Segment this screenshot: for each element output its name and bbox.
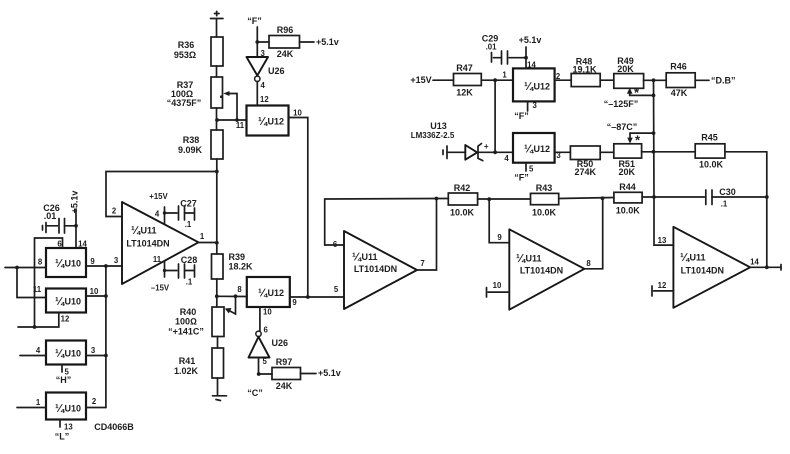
wire op-amp c output riser [584,198,602,268]
svg-text:7: 7 [420,259,424,268]
svg-text:¼: ¼ [524,81,534,93]
wire diode to U12 d pin 4 [478,151,513,153]
svg-text:U26: U26 [268,66,285,76]
svg-text:20K: 20K [618,167,635,177]
svg-text:5: 5 [334,285,339,294]
svg-text:+5.1v: +5.1v [519,35,542,45]
pin 6 feedback wire [325,199,437,246]
resistor R44 [614,182,642,216]
svg-text:LT1014DN: LT1014DN [681,266,724,276]
svg-text:10.0K: 10.0K [699,160,724,170]
node: R43/R44 to op-amp c output [601,196,605,200]
wire R37-R38 through tap node [216,108,218,130]
resistor R96 [269,25,300,59]
output wire (op-amp d) [750,265,781,271]
op-amp U11 b (pins 6/5/7) [333,231,425,309]
potentiometer R37 [167,77,237,119]
wire C30 to output riser [712,196,767,198]
svg-text:U12: U12 [268,288,285,298]
svg-text:.1: .1 [721,200,728,209]
capacitor C29 [482,34,526,65]
wire R47 to U12 c pin 1 [481,79,513,81]
analog switch U10 d (pins 1/2, 13) net L [17,393,106,442]
svg-text:¼: ¼ [680,252,690,264]
svg-text:4: 4 [36,346,41,355]
+5.1v rail label (rotated) [70,191,80,248]
svg-text:14: 14 [527,61,536,70]
wire R50-R51 [600,151,614,153]
pin 10 stub to U26 b [260,307,272,335]
svg-text:U11: U11 [690,253,706,263]
svg-text:R39: R39 [229,252,246,262]
node C26/+5.1v rail [74,224,78,228]
op-amp U11 d (pins 13/12/14) [658,227,760,308]
svg-text:10: 10 [90,287,99,296]
svg-text:R46: R46 [670,62,687,72]
bus: U10 outputs to op-amp pin 3 [104,264,108,407]
svg-text:R97: R97 [276,357,293,367]
node: R47/diode riser [493,78,497,82]
potentiometer R40 [168,296,235,336]
capacitor C28 [165,255,198,287]
node: R49/bus [652,78,656,82]
inverter U26 b (pointing up) [249,331,289,366]
svg-text:8: 8 [586,259,591,268]
wire op-amp b output up to main row [417,199,437,271]
svg-text:3: 3 [261,49,266,58]
pin 3 stub and F label [514,101,537,121]
svg-text:R45: R45 [701,133,718,143]
svg-text:¼: ¼ [516,253,526,265]
pin 14 stub to +5.1v [519,35,542,70]
analog switch U10 c (pins 4/3, 5) net H [20,341,106,386]
capacitor C26 [43,203,77,233]
pin 2 output wire [555,72,572,81]
node: F / R96 [255,40,259,44]
wire R96 to +5.1v [300,41,315,43]
svg-text:1.02K: 1.02K [174,366,199,376]
svg-text:R42: R42 [454,183,471,193]
svg-text:+5.1v: +5.1v [318,368,341,378]
wire op-amp output to node [199,242,218,244]
svg-text:10: 10 [263,308,272,317]
svg-text:10: 10 [293,109,302,118]
svg-text:R47: R47 [456,63,473,73]
analog switch U12 d (pins 4/3, 5) [513,133,555,163]
svg-text:9.09K: 9.09K [178,145,203,155]
resistor R41 [174,348,224,378]
wire node to R42 [436,198,448,200]
svg-text:LT1014DN: LT1014DN [126,239,169,249]
svg-text:–15V: –15V [151,284,170,293]
svg-text:12: 12 [658,281,667,290]
svg-text:4: 4 [155,210,160,219]
svg-text:LM336Z-2.5: LM336Z-2.5 [411,131,455,140]
node C [247,372,263,398]
svg-text:CD4066B: CD4066B [94,422,134,432]
node: diode/riser [493,150,497,154]
wire R49 to R46 [644,79,667,81]
wire node C to R97 [259,373,272,375]
svg-text:“–87C”: “–87C” [607,122,638,132]
svg-text:U11: U11 [141,226,157,236]
analog switch U12 c (pins 1/2, 14, 3) [513,68,555,101]
svg-text:2: 2 [92,397,97,406]
svg-text:¼: ¼ [131,225,141,237]
node: op-amp b output / R42 [435,197,439,201]
wire power to R36 [216,19,218,38]
svg-text:“F”: “F” [247,16,262,26]
svg-text:5: 5 [529,165,534,174]
wire node down to diode node [494,80,496,152]
pin 3 output wire (U12 d) [555,151,571,160]
svg-text:“F”: “F” [514,111,529,121]
svg-text:+15V: +15V [410,75,431,85]
pin 9 wire to bus [86,257,122,266]
wire R45 to output riser [725,151,767,153]
wire R46 to D.B output [695,76,735,86]
wire +15V to R47 [433,79,454,81]
svg-text:10.0K: 10.0K [616,206,641,216]
svg-text:+: + [484,142,489,151]
svg-text:8: 8 [237,285,242,294]
svg-text:“+141C”: “+141C” [168,327,204,337]
svg-text:R44: R44 [619,182,636,192]
svg-text:.01: .01 [486,43,498,52]
svg-text:953Ω: 953Ω [174,50,196,60]
wire R44 to C30 [642,196,704,198]
inverter U26 (top) [247,49,285,90]
wire R97 to +5.1v [301,368,341,378]
svg-text:1: 1 [36,398,41,407]
svg-text:10.0K: 10.0K [532,208,557,218]
svg-text:U10: U10 [65,297,82,307]
wire node to R96 [257,41,269,43]
wire R51 to R45 [642,151,696,153]
pin 12 wire [18,313,70,329]
node: R51 wiper/bus [652,131,656,135]
node: U12 b input / R40 [215,285,247,298]
svg-text:¼: ¼ [524,144,534,156]
node: follower output [215,241,219,245]
ground (below R41) [213,378,227,401]
node: R37/R38 tap to U12 pin 11 [215,118,246,130]
resistor R50 [570,146,600,177]
svg-text:47K: 47K [671,88,688,98]
svg-text:10: 10 [493,281,502,290]
pin 13 wire from bus [654,197,673,245]
capacitor C30 [706,187,736,209]
resistor R43 [531,183,559,218]
svg-text:“C”: “C” [247,388,263,398]
svg-text:R38: R38 [183,135,200,145]
resistor R39 [212,252,254,279]
svg-text:19.1K: 19.1K [572,65,597,75]
svg-text:9: 9 [90,257,95,266]
svg-text:U12: U12 [268,117,285,127]
node: R42/R43 to pin 9 [487,197,491,201]
svg-text:+15V: +15V [149,192,168,201]
svg-text:U12: U12 [534,82,551,92]
svg-text:11: 11 [33,285,42,294]
svg-text:¼: ¼ [352,252,362,264]
svg-text:3: 3 [533,101,538,110]
wire U26 b to node C [258,358,260,375]
svg-text:11: 11 [236,121,245,130]
wire R36-R37 [216,66,218,77]
resistor R97 [272,357,301,391]
svg-text:9: 9 [497,233,502,242]
svg-text:.01: .01 [44,211,57,221]
svg-text:R41: R41 [179,356,196,366]
pin 5 stub and F label [514,163,534,183]
svg-text:4: 4 [504,154,509,163]
svg-text:13: 13 [64,423,73,432]
potentiometer R49 [614,56,654,100]
svg-text:R36: R36 [178,40,195,50]
svg-text:4: 4 [261,81,266,90]
feedback riser R45/C30 to output [766,152,768,267]
svg-text:1: 1 [502,71,507,80]
analog switch U10 a (pins 8/9, 6, 14) [46,240,87,278]
svg-text:LT1014DN: LT1014DN [354,264,397,274]
svg-text:U10: U10 [65,349,82,359]
svg-text:13: 13 [658,236,667,245]
svg-text:+5.1v: +5.1v [70,191,80,214]
svg-text:.1: .1 [186,278,193,287]
resistor R38 [178,130,223,159]
svg-text:C27: C27 [180,199,197,209]
analog switch U12 b (pins 8/9, 10) [247,277,290,307]
svg-text:11: 11 [153,255,162,264]
resistor R42 [448,183,477,218]
wire node down to op-amp c pin 9 [489,199,509,243]
svg-text:5: 5 [263,357,268,366]
svg-text:14: 14 [78,240,87,249]
pin 10 ground tick (op-amp c) [487,288,510,298]
svg-text:U26: U26 [272,338,289,348]
resistor R48 [571,57,600,87]
svg-text:R96: R96 [277,25,294,35]
pin 4 +15V stub [149,192,168,224]
node: R51/bus [652,150,656,154]
zener U13 LM336Z-2.5 [411,121,489,161]
pin 11 -15V stub [151,255,170,293]
op-amp U11 c (pins 9/10/8) [493,229,592,309]
wire R40-R41 [217,337,219,349]
svg-text:10.0K: 10.0K [450,208,475,218]
svg-text:“–125F”: “–125F” [604,99,639,109]
svg-text:274K: 274K [575,167,597,177]
svg-text:LT1014DN: LT1014DN [520,266,563,276]
svg-text:12: 12 [61,315,70,324]
analog switch U12 (top, pins 11/12/10) [247,106,289,136]
wire F down to U26 input [256,27,258,57]
svg-text:1: 1 [200,232,205,241]
svg-text:14: 14 [750,258,759,267]
op-amp U11 a (voltage follower, pins 2/3/1) [112,202,205,284]
resistor R36 [174,37,223,66]
svg-text:R43: R43 [536,183,553,193]
svg-text:¼: ¼ [55,258,65,270]
svg-text:8: 8 [38,258,43,267]
pin 8 input wire [5,258,46,270]
svg-text:12: 12 [260,95,269,104]
potentiometer R51 [614,133,654,178]
svg-text:“4375F”: “4375F” [167,98,202,108]
wire R48-R49 [600,79,614,81]
svg-text:U12: U12 [534,144,551,154]
svg-text:U10: U10 [65,404,82,414]
svg-text:“F”: “F” [514,173,529,183]
pin 6 stub and route down to pin 12 line [35,238,63,327]
svg-text:¼: ¼ [55,296,65,308]
svg-text:“L”: “L” [55,432,70,442]
svg-text:100Ω: 100Ω [175,317,197,327]
svg-text:“H”: “H” [56,375,72,385]
power rail symbol (top of R36) [211,11,224,18]
wire R42-R43 [478,198,531,200]
svg-text:9: 9 [292,298,297,307]
resistor R45 [695,133,725,170]
svg-text:C28: C28 [181,255,198,265]
svg-text:+5.1v: +5.1v [316,37,339,47]
node: R44/bus [652,195,656,199]
analog switch U10 b (pins 11/10, 12) [33,285,86,313]
capacitor C27 [165,199,197,230]
node: C30/output riser [765,195,769,199]
svg-text:18.2K: 18.2K [229,262,254,272]
svg-text:6: 6 [57,240,62,249]
svg-text:U11: U11 [526,254,542,264]
wire R39 to node [216,279,218,307]
svg-text:¼: ¼ [258,288,268,300]
pin 10 wire to bus [86,287,106,296]
svg-text:¼: ¼ [55,403,65,415]
svg-text:R40: R40 [180,307,197,317]
node: feedback tap [215,170,219,174]
svg-text:12K: 12K [456,88,473,98]
wire: R38 bottom down to follower output node and R39 [216,159,218,254]
svg-text:2: 2 [112,207,117,216]
svg-text:U13: U13 [430,121,447,131]
svg-text:3: 3 [91,346,96,355]
svg-text:3: 3 [114,256,119,265]
svg-text:C30: C30 [719,187,736,197]
svg-text:U11: U11 [362,252,378,262]
svg-text:¼: ¼ [55,348,65,360]
wire U26 out to U12 pin 12 [256,82,258,106]
wire R43-R44 [559,198,614,199]
svg-text:.1: .1 [185,220,192,229]
svg-text:¼: ¼ [258,116,268,128]
svg-text:20K: 20K [617,64,634,74]
pin 9 output wire to op-amp pin 5 [290,295,344,307]
svg-text:6: 6 [264,326,269,335]
svg-text:U10: U10 [65,259,82,269]
summing bus (R49/R51 wipers down to R44 node) [653,80,656,197]
svg-text:“D.B”: “D.B” [711,76,736,86]
svg-text:24K: 24K [276,381,293,391]
node: wiper/bus [652,94,656,98]
svg-text:24K: 24K [277,49,294,59]
resistor R46 [666,62,695,99]
wire: feedback to op-amp U11 pin 2 [106,172,217,217]
pin 12 ground tick (op-amp d) [652,286,673,296]
resistor R47 [454,63,482,98]
wire U12 output right then down to U12 #2 output node [289,118,308,298]
wire pin8 node down to pin 11 [17,268,46,298]
